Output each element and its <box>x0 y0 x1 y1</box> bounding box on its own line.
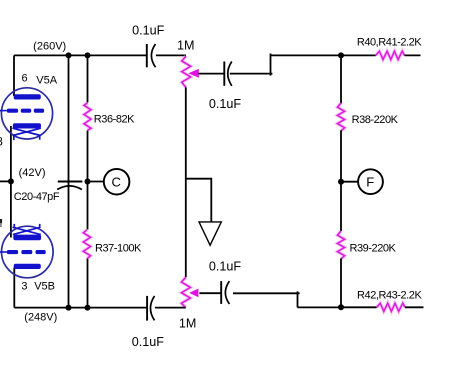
node junction dot C <box>85 179 91 185</box>
wire bottom-right step <box>233 292 300 294</box>
svg-text:(260V): (260V) <box>33 40 66 52</box>
svg-text:3: 3 <box>21 280 27 292</box>
resistor R42,R43-2.2K <box>377 303 405 311</box>
svg-text:R37-100K: R37-100K <box>95 243 142 255</box>
svg-text:V5B: V5B <box>34 280 55 292</box>
svg-text:R40,R41-2.2K: R40,R41-2.2K <box>357 36 422 48</box>
svg-text:R36-82K: R36-82K <box>94 114 135 126</box>
potentiometer 1M top <box>182 56 191 87</box>
node junction dot top-right <box>338 52 344 58</box>
wire junction to R42 <box>341 306 377 308</box>
node junction dot bottom-right <box>338 304 344 310</box>
wire top cap to pot <box>156 54 186 56</box>
wire 42V to left edge <box>0 180 11 182</box>
wire left drop to V5A plate <box>13 55 15 96</box>
node junction dot 42V <box>8 178 14 184</box>
svg-text:R39-220K: R39-220K <box>350 242 397 254</box>
node junction dot bottom rail A <box>66 305 72 311</box>
svg-text:R42,R43-2.2K: R42,R43-2.2K <box>357 289 422 301</box>
svg-text:0.1uF: 0.1uF <box>132 23 165 37</box>
node junction dot top rail B <box>85 52 91 58</box>
wire vertical line B segment 3 <box>87 259 89 308</box>
tube V5A cathode <box>13 123 41 128</box>
capacitor 0.1uF bottom-right <box>221 281 229 304</box>
node junction dot bottom rail B <box>85 305 91 311</box>
tube V5B grid lead <box>0 251 7 253</box>
svg-text:F: F <box>366 174 374 189</box>
wire right column upper <box>340 55 342 103</box>
wire vertical line B segment 1 <box>87 55 89 102</box>
wire to node F <box>341 181 358 183</box>
tube V5B envelope <box>2 226 54 278</box>
wire R39 to bottom junction <box>340 259 342 308</box>
svg-text:1M: 1M <box>177 38 195 52</box>
wire top rail (260V) <box>14 54 147 56</box>
wire pot bottom vertical <box>185 87 187 277</box>
wire after R40 <box>404 54 420 56</box>
resistor R36-82K <box>84 103 91 131</box>
tube V5B plate <box>14 264 41 269</box>
svg-text:0.1uF: 0.1uF <box>132 335 165 349</box>
tube V5A grid <box>7 109 44 113</box>
svg-text:R38-220K: R38-220K <box>352 114 399 126</box>
svg-text:0.1uF: 0.1uF <box>209 97 242 111</box>
tube V5A heater <box>13 128 41 140</box>
resistor R40,R41-2.2K <box>376 51 405 59</box>
resistor R37-100K <box>83 230 90 259</box>
wire vertical line A <box>68 55 70 307</box>
wire to node C <box>88 181 104 183</box>
tube V5A grid lead <box>0 110 7 112</box>
node junction dot top rail A <box>66 52 72 58</box>
ground <box>199 222 221 245</box>
wire bottom wiper to cap <box>199 292 221 294</box>
potentiometer 1M top wiper arrow <box>188 69 198 78</box>
svg-text:(42V): (42V) <box>19 167 46 179</box>
tube V5A envelope <box>1 88 52 139</box>
node junction dot F <box>338 179 344 185</box>
svg-text:C20-47pF: C20-47pF <box>14 191 60 203</box>
wire top-right step up <box>230 73 273 75</box>
node C <box>104 169 130 195</box>
tube V5A plate <box>14 94 41 99</box>
tube V5B grid <box>7 250 46 254</box>
wire top wiper to cap <box>199 73 225 75</box>
capacitor 0.1uF bottom-left <box>147 296 154 321</box>
potentiometer 1M bottom wiper arrow <box>189 289 198 298</box>
wire bottom rail cap to pot <box>155 307 186 309</box>
svg-text:C: C <box>112 174 121 189</box>
tube V5B cathode <box>13 235 41 241</box>
wire V5B cathode lead <box>10 181 12 237</box>
svg-text:6: 6 <box>22 73 28 85</box>
wire R38 to F junction <box>340 130 342 231</box>
label pin mark V5B (clipped at edge) <box>0 219 2 227</box>
wire V5A cathode lead <box>10 126 12 181</box>
capacitor 0.1uF top-right <box>224 62 232 86</box>
svg-text:1M: 1M <box>179 317 197 331</box>
node F <box>358 169 383 194</box>
capacitor 0.1uF top-left <box>147 44 156 67</box>
svg-text:0.1uF: 0.1uF <box>209 260 242 274</box>
tube V5B heater <box>13 224 41 235</box>
wire ground branch <box>186 179 212 222</box>
wire vertical line B segment 2 <box>87 131 89 230</box>
wire V5B plate lead <box>13 268 15 308</box>
svg-text:8: 8 <box>0 134 3 148</box>
capacitor C20-47pF <box>57 182 82 190</box>
svg-text:V5A: V5A <box>36 74 57 86</box>
resistor R39-220K <box>337 231 344 259</box>
wire bottom rail (248V) <box>14 307 147 309</box>
potentiometer 1M bottom <box>181 277 190 307</box>
wire after R42 <box>405 306 424 308</box>
wire junction to R40 <box>341 54 376 56</box>
resistor R38-220K <box>337 103 344 131</box>
svg-text:(248V): (248V) <box>24 312 57 324</box>
